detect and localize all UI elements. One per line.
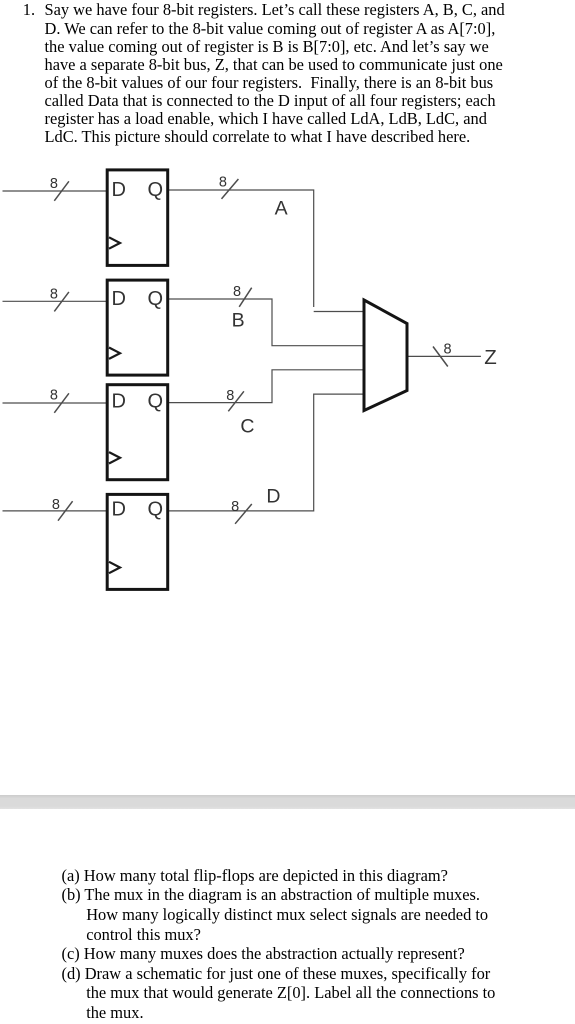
bus-width slash, bus B (239, 288, 252, 307)
svg-text:D: D (112, 179, 126, 201)
svg-text:D: D (112, 391, 126, 413)
register 1 (A) flip-flop box (107, 170, 168, 266)
paragraph number (23, 1, 35, 19)
clock triangle, register 2 (109, 348, 120, 359)
bus-width slash, register 1 input (54, 181, 69, 201)
svg-text:C: C (240, 416, 254, 438)
wire: register 4 Q output, bus D to mux (169, 394, 363, 511)
wire: mux output Z (408, 355, 481, 357)
separator bar (0, 795, 575, 809)
svg-text:Z: Z (484, 346, 497, 369)
wire: register 2 Q output, bus B to mux (169, 299, 363, 346)
bus-width slash, register 2 input (54, 292, 69, 312)
bus-width slash, bus A (222, 179, 239, 199)
bus-width slash, bus C (228, 391, 244, 411)
svg-text:D: D (112, 499, 126, 521)
svg-text:8: 8 (226, 388, 234, 404)
svg-text:8: 8 (219, 175, 227, 191)
wire: Data bus into register 3 (3, 402, 107, 404)
svg-text:B: B (232, 310, 245, 332)
clock triangle, register 4 (109, 562, 120, 573)
svg-text:8: 8 (444, 342, 452, 358)
bus-width slash, bus D (235, 504, 252, 524)
wire: Data bus into register 4 (3, 510, 107, 512)
svg-text:8: 8 (50, 176, 58, 192)
svg-text:8: 8 (50, 388, 58, 404)
svg-text:8: 8 (50, 287, 58, 303)
register 3 (C) flip-flop box (107, 385, 168, 480)
svg-text:Q: Q (148, 179, 164, 201)
svg-text:Q: Q (148, 499, 164, 521)
bus-width slash, bus Z (433, 347, 448, 367)
problem statement paragraph (45, 1, 505, 146)
mux U1 trapezoid (364, 300, 407, 411)
register 4 (D) flip-flop box (107, 494, 168, 589)
clock triangle, register 1 (109, 237, 120, 248)
svg-text:8: 8 (233, 284, 241, 300)
bus-width slash, register 3 input (54, 393, 69, 413)
wire: register 1 Q output, bus A to mux (169, 190, 314, 307)
svg-text:8: 8 (52, 497, 60, 513)
wire: Data bus into register 1 (3, 190, 107, 192)
wire: Data bus into register 2 (3, 300, 107, 302)
svg-text:D: D (112, 288, 126, 310)
svg-text:Q: Q (148, 391, 164, 413)
svg-text:Q: Q (148, 288, 164, 310)
questions list (62, 866, 496, 1023)
register 2 (B) flip-flop box (107, 280, 168, 375)
svg-text:D: D (266, 486, 280, 508)
bus-width slash, register 4 input (58, 501, 73, 521)
svg-text:8: 8 (231, 499, 239, 515)
svg-text:A: A (275, 198, 288, 220)
wire: register 3 Q output, bus C to mux (169, 370, 363, 403)
clock triangle, register 3 (109, 452, 120, 463)
